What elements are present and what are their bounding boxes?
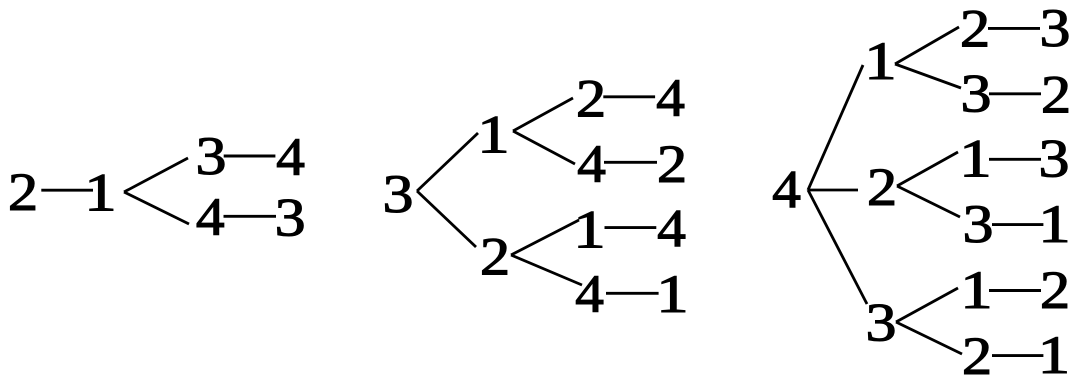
wire T1 branch to 3 (124, 158, 188, 192)
svg-text:4: 4 (575, 264, 604, 324)
wire dash 3-4 (224, 155, 276, 158)
wire dash 2-1 (992, 354, 1043, 357)
svg-text:3: 3 (1039, 129, 1070, 189)
wire dash 4-3 (224, 215, 277, 218)
wire T3 node2 to 3 (897, 186, 960, 217)
svg-text:1: 1 (656, 264, 689, 324)
wire dash between 2 and 1 (41, 189, 93, 192)
wire T3 node1 to 3 (895, 64, 961, 88)
svg-text:1: 1 (84, 163, 117, 223)
svg-text:2: 2 (480, 227, 510, 287)
wire dash 1-3 (989, 158, 1041, 161)
svg-text:3: 3 (383, 164, 414, 224)
wire T3 root to node 1 (808, 65, 863, 190)
wire T3 node3 to 1 (896, 288, 958, 322)
svg-text:4: 4 (276, 127, 305, 187)
wire T3 node3 to 2 (896, 322, 962, 354)
wire T2 root to node 1 (417, 133, 478, 191)
wire T3 root to node 2 (808, 189, 858, 192)
wire dash 4-2 (604, 161, 657, 164)
wire dash 4-1 (606, 292, 659, 295)
wire dash 1-4 (605, 226, 657, 229)
svg-text:3: 3 (196, 126, 227, 186)
wire T3 node1 to 2 (895, 27, 959, 64)
wire dash 1-2 (989, 289, 1041, 292)
svg-text:2: 2 (960, 0, 990, 59)
svg-text:4: 4 (772, 160, 801, 220)
svg-text:3: 3 (963, 194, 994, 254)
svg-text:1: 1 (959, 129, 992, 189)
svg-text:2: 2 (576, 69, 606, 129)
wire T3 root to node 3 (808, 190, 867, 304)
wire T3 node2 to 1 (897, 152, 958, 186)
wire T1 branch to 4 (124, 192, 189, 224)
svg-text:2: 2 (1041, 65, 1071, 125)
wire T2 root to node 2 (417, 191, 476, 247)
svg-text:4: 4 (657, 199, 686, 259)
wire T2 node1 to 4 (513, 131, 575, 164)
wire T2 node1 to 2 (513, 98, 573, 131)
svg-text:2: 2 (1040, 260, 1070, 320)
wire dash 2-3 (988, 27, 1040, 30)
svg-text:2: 2 (657, 134, 687, 194)
svg-text:4: 4 (656, 68, 685, 128)
wire T2 node2 to 1 (511, 220, 579, 255)
wire dash 2-4 (603, 95, 655, 98)
svg-text:1: 1 (1038, 325, 1071, 385)
svg-text:1: 1 (573, 200, 606, 260)
svg-text:1: 1 (477, 105, 510, 165)
wire T2 node2 to 4 (511, 255, 582, 285)
svg-text:3: 3 (866, 293, 897, 353)
svg-text:4: 4 (577, 134, 606, 194)
svg-text:4: 4 (196, 187, 225, 247)
svg-text:1: 1 (864, 31, 897, 91)
svg-text:2: 2 (962, 326, 992, 386)
svg-text:2: 2 (867, 157, 897, 217)
svg-text:3: 3 (1040, 0, 1071, 58)
svg-text:1: 1 (1038, 194, 1071, 254)
svg-text:3: 3 (961, 64, 992, 124)
svg-text:2: 2 (8, 162, 38, 222)
wire dash 3-1 (992, 223, 1043, 226)
svg-text:1: 1 (960, 260, 993, 320)
wire dash 3-2 (989, 92, 1041, 95)
svg-text:3: 3 (275, 187, 306, 247)
